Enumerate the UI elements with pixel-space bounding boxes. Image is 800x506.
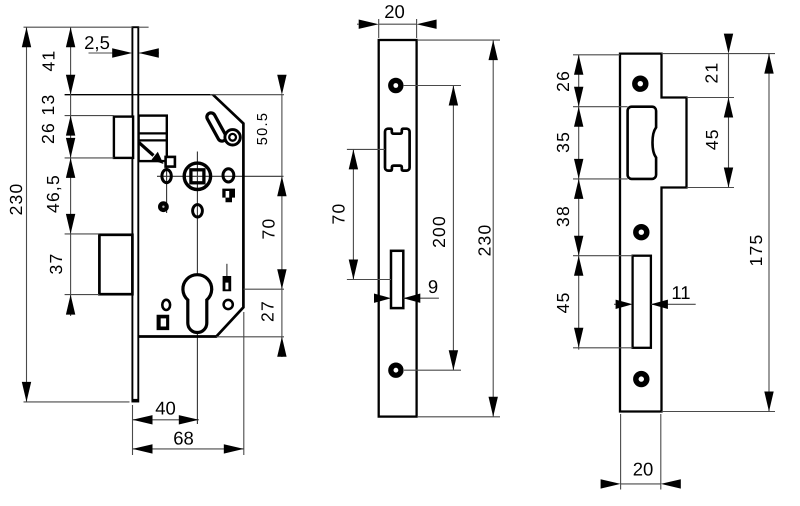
- strike plate outline with tab: [620, 54, 687, 412]
- svg-text:230: 230: [6, 183, 26, 216]
- svg-text:45: 45: [702, 128, 722, 150]
- svg-text:41: 41: [39, 50, 59, 72]
- spring lever (obround): [211, 117, 222, 137]
- strike screw bottom: [633, 371, 649, 387]
- extension lines (right view): [573, 54, 775, 490]
- dimension column 50.5/70/27 line: [281, 95, 283, 357]
- latch stop square: [166, 157, 175, 167]
- deadbolt slot (strike): [633, 256, 651, 348]
- dimension 20 (top): [357, 1, 437, 38]
- dimension 37: [46, 253, 75, 315]
- cylinder fixing screw: [223, 276, 232, 291]
- dimension 11: [614, 282, 696, 309]
- dimension 45 (strike right): [702, 128, 733, 187]
- faceplate (side view, 2.5 thick): [132, 27, 138, 401]
- pivot double circle: [225, 130, 240, 145]
- faceplate bottom cap: [132, 399, 139, 402]
- svg-text:50.5: 50.5: [255, 112, 271, 145]
- dimension 9: [374, 276, 439, 303]
- deadbolt slot (front): [391, 251, 403, 308]
- follower square hole: [191, 170, 204, 183]
- latch bolt head (protruding): [114, 117, 133, 158]
- strike screw middle: [633, 224, 649, 240]
- dimension 26 (strike): [553, 55, 583, 107]
- deadbolt head (protruding): [99, 235, 132, 294]
- case top edge (thin): [65, 94, 213, 96]
- strike screw top: [632, 76, 648, 92]
- svg-text:2,5: 2,5: [84, 32, 110, 53]
- dimension 46,5: [43, 158, 75, 234]
- dimension 230 (left): [6, 27, 31, 402]
- small circle right: [224, 300, 233, 309]
- centerline vertical through follower and cylinder: [196, 152, 198, 425]
- latch lever diagonal with arrow: [139, 143, 164, 164]
- svg-text:11: 11: [671, 282, 690, 303]
- faceplate front outline: [379, 40, 417, 417]
- svg-text:45: 45: [553, 291, 573, 313]
- centerline horizontal through cylinder: [182, 288, 214, 290]
- lock case outline: [139, 95, 244, 337]
- bracket window: [157, 315, 170, 330]
- dimension 38 (strike): [553, 179, 583, 256]
- svg-text:21: 21: [702, 62, 722, 84]
- dimension 41: [39, 27, 76, 95]
- dimension 70 (middle view): [329, 149, 359, 279]
- dimension 27: [258, 300, 287, 357]
- svg-text:175: 175: [746, 234, 766, 267]
- rivet dot: [158, 201, 169, 212]
- centerline through left screw oval: [166, 166, 168, 213]
- follower hub circle: [184, 163, 210, 189]
- svg-text:13: 13: [38, 94, 58, 116]
- dimension 200: [429, 86, 458, 371]
- dimension 26: [38, 116, 75, 158]
- svg-text:230: 230: [475, 224, 495, 257]
- centerline above cylinder screw: [226, 264, 228, 276]
- svg-text:20: 20: [384, 1, 405, 22]
- dimension column 41/13/26/46,5/37 line: [70, 27, 72, 316]
- svg-text:26: 26: [38, 122, 58, 144]
- dimension 68: [133, 427, 244, 453]
- centerline horizontal through follower: [157, 175, 284, 177]
- latch case box: [139, 116, 167, 162]
- svg-text:37: 37: [46, 253, 66, 275]
- extension lines (middle view): [347, 40, 500, 417]
- top screw: [388, 78, 403, 93]
- svg-text:35: 35: [553, 131, 573, 153]
- euro cylinder profile: [183, 275, 212, 333]
- dimension 175: [746, 54, 774, 412]
- dimension 35 (strike): [553, 107, 583, 179]
- latch cutout with notches: [385, 129, 410, 171]
- dimension 20 (strike bottom): [601, 459, 681, 489]
- svg-text:38: 38: [553, 205, 573, 227]
- dimension extension lines (left): [24, 27, 285, 455]
- svg-text:46,5: 46,5: [43, 174, 63, 213]
- right dimension column 21/45: [728, 54, 730, 188]
- left dimension column line: [578, 55, 580, 350]
- svg-text:27: 27: [258, 300, 278, 322]
- latch opening with notch: [628, 107, 657, 179]
- small oval above bracket: [162, 300, 170, 310]
- dimension 2,5: [84, 32, 159, 58]
- svg-text:70: 70: [329, 203, 349, 225]
- svg-text:70: 70: [259, 218, 279, 240]
- dimension 45 (strike left): [553, 256, 583, 348]
- svg-text:20: 20: [633, 459, 654, 480]
- svg-text:40: 40: [155, 397, 176, 418]
- dimension 70 (left view): [259, 218, 287, 290]
- right screw oval: [223, 169, 234, 182]
- svg-text:9: 9: [428, 276, 438, 297]
- left screw oval: [162, 170, 171, 183]
- dimension 40: [133, 397, 199, 424]
- svg-text:26: 26: [553, 70, 573, 92]
- svg-text:68: 68: [173, 427, 194, 448]
- dimension 21: [702, 34, 734, 118]
- key post (below right oval): [222, 189, 235, 203]
- small oval below follower: [193, 205, 203, 217]
- dimension 50.5: [255, 75, 287, 197]
- svg-text:200: 200: [429, 215, 449, 248]
- dimension 230 (middle view): [475, 40, 498, 417]
- bottom screw: [388, 363, 403, 378]
